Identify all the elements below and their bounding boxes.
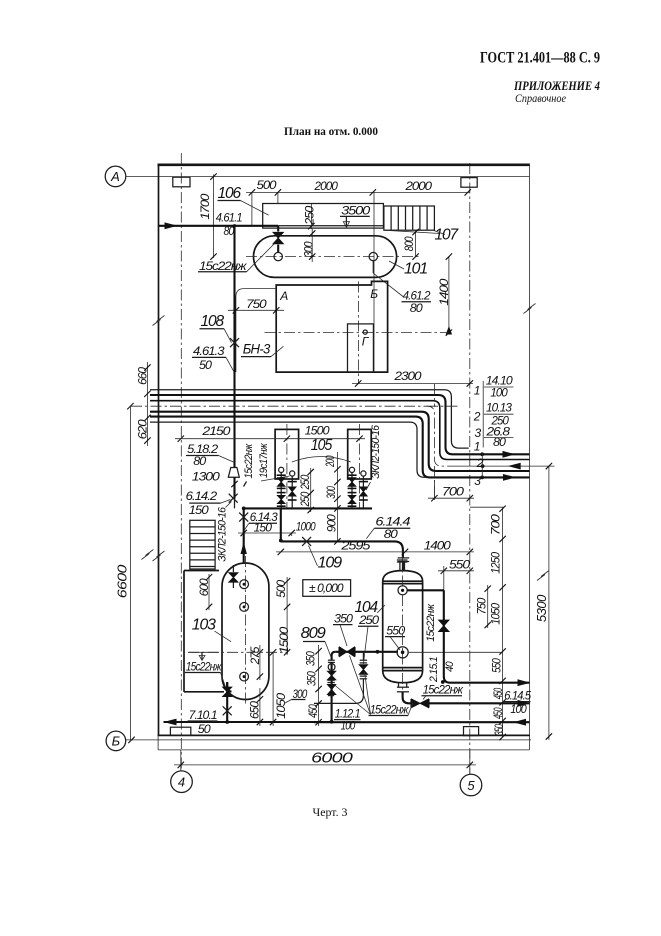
vessel 104 nozzle circle 2 (397, 647, 408, 658)
svg-text:450: 450 (491, 707, 505, 719)
svg-text:БН-3: БН-3 (243, 342, 271, 357)
dim 250 250 valves (310, 468, 312, 512)
collector 105 left box (275, 429, 299, 479)
svg-text:1400: 1400 (424, 539, 451, 553)
vessel 103 (222, 563, 269, 700)
pipe 4.61.1 inlet (159, 225, 279, 227)
pipe from 104 nozzle 1 (407, 589, 444, 591)
dim 275 (259, 645, 261, 680)
svg-text:106: 106 (218, 185, 242, 202)
pipe rack centerline (131, 406, 455, 466)
gate valve on 809 pipe (338, 647, 340, 657)
building 108 centerline horizontal (265, 332, 449, 334)
dim 2300 (352, 383, 473, 385)
axis 5 circle (460, 774, 482, 796)
svg-text:350: 350 (305, 671, 319, 686)
pipe 1 outlet arrow (503, 451, 516, 458)
plan outer wall top (158, 164, 530, 167)
vessel 104 bottom outlet (398, 683, 400, 688)
equipment 106 platform box (263, 204, 384, 229)
svg-text:3: 3 (474, 474, 481, 488)
pipe rack line 7 (150, 422, 430, 477)
ext line to right dim chain (470, 506, 504, 508)
svg-text:1: 1 (474, 383, 480, 397)
vessel 101 (254, 236, 397, 278)
svg-text:1700: 1700 (198, 193, 212, 219)
dim 550 top of vessel 104 (443, 566, 445, 592)
svg-text:104: 104 (355, 599, 379, 616)
collector 105 left centerline (286, 424, 288, 508)
svg-text:3500: 3500 (341, 204, 370, 218)
riser pipe below funnel (233, 477, 235, 498)
svg-text:150: 150 (189, 503, 209, 517)
valve on 104 drain (410, 699, 412, 708)
pipe B from junction to vessel 103 (243, 508, 245, 563)
riser pipe from 4.61.1 down (233, 226, 235, 468)
svg-text:4.61.1: 4.61.1 (216, 211, 242, 225)
column at axis B-5 (464, 727, 479, 736)
axis 4 circle (171, 771, 193, 793)
collector left valve column 2 (291, 476, 293, 508)
dim 300 nozzle (311, 228, 313, 262)
svg-text:А: А (279, 289, 288, 303)
pit left wall (183, 571, 185, 692)
svg-text:80: 80 (384, 527, 398, 541)
pipe 6.14.5 outlet arrow (518, 679, 531, 686)
svg-text:1000: 1000 (296, 520, 316, 534)
pipe 3 outlet arrow (503, 474, 516, 481)
svg-text:15с22нж: 15с22нж (243, 444, 255, 479)
left dim chain 660-620 (146, 362, 148, 446)
riser to vessel 103 with X (234, 499, 236, 509)
axis 4 line (180, 153, 182, 771)
svg-text:4: 4 (178, 775, 185, 790)
dim 900 vertical (334, 538, 340, 544)
svg-text:50: 50 (199, 358, 212, 372)
svg-text:50: 50 (198, 722, 211, 736)
svg-text:250: 250 (303, 205, 317, 225)
vessel 104 (382, 581, 384, 670)
svg-text:300: 300 (302, 241, 316, 257)
dim 1700 axis A to vessel 101 (213, 175, 215, 259)
dim 700 under bend (433, 480, 435, 500)
svg-text:350: 350 (492, 724, 506, 736)
stairs 107 (384, 206, 435, 230)
extension line at 277.7 (277, 192, 279, 203)
plan outer wall bottom (158, 734, 531, 736)
column at axis A-5 (461, 178, 477, 188)
vessel 104 nozzle circle 1 (398, 586, 407, 595)
svg-text:4.61.3: 4.61.3 (193, 344, 225, 358)
svg-text:2000: 2000 (314, 179, 339, 193)
elevation mark at 103 (189, 651, 219, 653)
svg-text:Справочное: Справочное (515, 93, 566, 105)
svg-text:1500: 1500 (277, 626, 291, 653)
dim 1500 nozzles (286, 610, 288, 655)
pipe rack line 6 (150, 417, 530, 478)
svg-text:350: 350 (304, 651, 318, 666)
svg-text:± 0,000: ± 0,000 (309, 581, 344, 595)
svg-text:6.14.2: 6.14.2 (186, 489, 218, 503)
svg-text:План на отм. 0.000: План на отм. 0.000 (284, 124, 378, 138)
axis B line (126, 739, 531, 741)
valve on vessel 103 top (232, 565, 234, 572)
svg-text:450: 450 (491, 688, 505, 700)
pipe 1.12.1 (314, 721, 530, 723)
left dim 6600 line (129, 406, 131, 740)
vessel 101 nozzle 1 (274, 252, 282, 260)
pit top edge (184, 570, 219, 572)
pipe rack bundle horizontal lines (150, 390, 469, 448)
collector right valve column 2 (362, 476, 364, 508)
dim 6000 (180, 750, 182, 771)
column at axis A-4 (173, 177, 190, 187)
axis B circle (106, 731, 126, 751)
svg-text:275: 275 (248, 646, 262, 665)
svg-text:700: 700 (442, 484, 464, 498)
svg-text:15с22нж: 15с22нж (186, 659, 222, 673)
svg-text:6000: 6000 (311, 751, 353, 767)
svg-text:500: 500 (257, 178, 277, 192)
right dim chain 700 (502, 507, 504, 737)
collector 105 right box (348, 429, 372, 479)
svg-text:650: 650 (248, 701, 262, 719)
svg-text:1: 1 (474, 439, 480, 453)
svg-text:80: 80 (193, 454, 206, 468)
809 right valve stack (362, 652, 364, 660)
pipe 809 horizontal (335, 651, 398, 653)
svg-text:ЗКЛ2-150-16: ЗКЛ2-150-16 (370, 424, 382, 478)
svg-text:105: 105 (311, 437, 333, 454)
dim 200 300 valves (336, 452, 338, 541)
svg-text:100: 100 (341, 719, 356, 733)
axis 5 line (469, 163, 471, 774)
break mark on right border (524, 304, 536, 314)
svg-text:2300: 2300 (393, 369, 421, 383)
svg-text:5300: 5300 (534, 594, 549, 622)
svg-text:7.10.1: 7.10.1 (189, 708, 217, 722)
ladder lower left (190, 520, 215, 569)
svg-text:1400: 1400 (437, 278, 451, 305)
svg-text:6600: 6600 (114, 564, 129, 599)
vessel 103 nozzle 3 (240, 672, 249, 681)
pipe 7.10.1 outlet left (164, 721, 332, 723)
orifice flanges on 104 inlet (398, 557, 410, 559)
svg-text:300: 300 (324, 486, 338, 499)
vessel 103 centerline (244, 556, 246, 706)
vessel 103 drain pipe (227, 683, 231, 692)
dim 1500 collectors (356, 436, 362, 442)
vessel 104 top nozzle (399, 562, 401, 571)
break mark on left wall upper (153, 316, 165, 326)
dim chain at 809 area (318, 645, 320, 726)
pipe list bracket (482, 381, 484, 448)
pipe 2 inlet arrow (508, 463, 521, 470)
column at axis B-4 (170, 727, 190, 735)
svg-text:500: 500 (274, 580, 288, 598)
svg-text:620: 620 (135, 419, 149, 439)
svg-text:100: 100 (490, 386, 508, 400)
vessel 101 centerline (246, 256, 420, 258)
building 108 outline (276, 281, 387, 372)
extension line through building (373, 192, 375, 372)
dim 500 nozzles (286, 577, 288, 610)
plan bottom band (157, 735, 159, 750)
dim 1050 left chain (272, 652, 274, 726)
collector 105 right centerline (359, 424, 361, 508)
svg-text:450: 450 (306, 704, 320, 718)
manifold pipe under collectors (244, 507, 372, 509)
svg-text:А: А (110, 169, 120, 184)
svg-text:1500: 1500 (305, 424, 330, 438)
809 left valve stack (328, 659, 335, 661)
svg-text:250: 250 (298, 492, 312, 508)
svg-text:1050: 1050 (489, 603, 503, 625)
svg-text:800: 800 (402, 236, 416, 251)
svg-text:2000: 2000 (404, 179, 432, 193)
collector right valve column 1 (351, 472, 353, 508)
svg-text:750: 750 (475, 597, 489, 614)
svg-text:15с22нж: 15с22нж (425, 604, 437, 642)
vessel 101 nozzle 2 (369, 252, 377, 260)
dim line 500-2000-2000 (246, 191, 470, 193)
dim 750 at 104 (487, 585, 489, 628)
svg-text:2150: 2150 (201, 424, 231, 438)
dim 800 stairs to vessel axis (415, 230, 417, 256)
dim 1400 vertical (448, 257, 450, 334)
vessel 104 centerline (402, 556, 404, 692)
svg-text:15с22нж: 15с22нж (370, 702, 410, 716)
svg-text:600: 600 (197, 578, 211, 596)
svg-text:750: 750 (246, 297, 267, 311)
svg-text:1300: 1300 (192, 470, 220, 484)
svg-text:ПРИЛОЖЕНИЕ 4: ПРИЛОЖЕНИЕ 4 (513, 79, 600, 93)
svg-text:ГОСТ 21.401—88 С. 9: ГОСТ 21.401—88 С. 9 (480, 50, 600, 67)
platform edge left of building 108 (236, 289, 276, 373)
dim 250 at box 106 (310, 204, 312, 230)
building 108 centerline vertical (357, 282, 359, 385)
svg-text:2595: 2595 (340, 539, 371, 553)
svg-text:101: 101 (404, 261, 427, 278)
pipe rack line 5 (150, 412, 530, 471)
svg-text:2: 2 (473, 409, 481, 423)
funnel drain on riser (228, 468, 239, 478)
svg-text:350: 350 (334, 612, 353, 626)
axis A circle (105, 166, 126, 187)
pit bottom wall (184, 691, 224, 693)
svg-text:80: 80 (493, 435, 506, 449)
svg-text:80: 80 (410, 301, 423, 315)
svg-text:15с22нж: 15с22нж (423, 683, 464, 697)
svg-text:200: 200 (323, 455, 337, 467)
valve 15s22nzh on vessel 101 nozzle (273, 232, 283, 244)
svg-text:660: 660 (135, 367, 149, 385)
axis A line (126, 176, 530, 178)
svg-text:900: 900 (325, 514, 339, 532)
svg-text:ЗКЛ2-150-16: ЗКЛ2-150-16 (217, 506, 229, 561)
svg-text:550: 550 (490, 658, 504, 673)
riser connection line at outlets (481, 454, 483, 477)
svg-text:5: 5 (467, 778, 475, 793)
pump box G in building 108 (348, 324, 374, 372)
svg-text:Г: Г (362, 335, 370, 349)
vessel 103 centerline horizontal (188, 651, 288, 653)
collector left valve column 1 (280, 472, 282, 508)
svg-text:19с17нж: 19с17нж (258, 443, 270, 478)
svg-text:109: 109 (318, 555, 343, 572)
svg-text:40: 40 (444, 661, 456, 672)
dim 750 platform (228, 309, 284, 311)
svg-text:103: 103 (192, 617, 217, 634)
dim 2595 1400 (276, 551, 474, 553)
svg-text:Б: Б (112, 734, 121, 749)
valve X upper on riser (229, 494, 238, 503)
valve X on riser (230, 338, 239, 347)
break mark on left wall lower (153, 551, 165, 561)
svg-text:108: 108 (201, 313, 225, 330)
pipe from right stack down to 1.12.1 line (314, 696, 363, 704)
centerline of rack vertical extension (433, 466, 435, 498)
svg-text:550: 550 (449, 557, 470, 571)
dim 600 in pit (208, 574, 210, 610)
svg-text:1050: 1050 (274, 693, 288, 719)
pipe 4.61.2 label from nozzle 2 (372, 261, 374, 273)
dim 5300 line (548, 466, 550, 740)
vessel 103 nozzle 1 (240, 580, 249, 589)
svg-text:250: 250 (298, 475, 312, 491)
svg-text:1250: 1250 (489, 552, 503, 574)
dim 2150 (175, 438, 292, 440)
vessel 103 nozzle 2 (240, 603, 249, 612)
svg-text:3: 3 (475, 426, 482, 440)
elevation box 0.000 (303, 580, 351, 597)
pipe 109 from collector to vessel 104 (280, 508, 282, 540)
dim 650 (259, 688, 261, 726)
plan wall right border (529, 164, 531, 750)
svg-text:150: 150 (254, 521, 273, 535)
svg-text:107: 107 (435, 227, 460, 244)
plan outer wall left (158, 164, 160, 736)
dim 1000 (238, 532, 296, 534)
nozzle 2 centerline extension (408, 651, 503, 653)
svg-text:15с22нж: 15с22нж (199, 259, 247, 273)
svg-text:2.15.1: 2.15.1 (428, 656, 440, 682)
svg-text:Черт. 3: Черт. 3 (313, 807, 348, 819)
svg-text:700: 700 (489, 514, 503, 535)
svg-text:809: 809 (301, 625, 327, 642)
